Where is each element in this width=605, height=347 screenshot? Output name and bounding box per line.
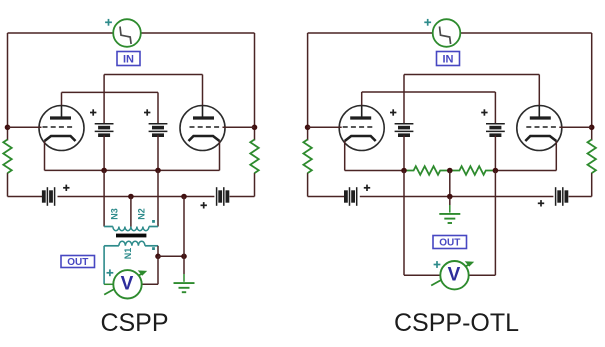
label OUT box (right) [433,236,467,249]
triode V1 [39,106,84,151]
wire cathode cross wire [45,169,220,171]
wire top rail left segment (right circuit) [308,32,433,34]
label CSPP [100,309,168,337]
wire B6 bottom lead [494,135,496,170]
node left-rail grid junction (right circuit) [305,125,311,131]
wire bottom rail [8,196,255,198]
node row right junction [493,168,499,174]
battery B5 [395,124,414,135]
voltage source VG1 plus [105,19,112,26]
battery B2 [149,124,168,135]
resistor R1 [3,140,11,174]
battery B6 plus [481,109,487,115]
svg-text:IN: IN [123,53,134,65]
voltage source VG1 [113,19,141,47]
transformer TR1 N1 phase dot [152,247,155,250]
label IN box (right) [437,52,460,66]
node center tap on rail [447,194,453,200]
label N3 [109,208,119,220]
battery B7 [346,187,357,206]
triode V2 [180,106,225,151]
node B1-cathode junction [101,168,107,174]
ground GND2 [439,214,460,223]
transformer TR1 N2 phase dot [152,220,155,223]
svg-text:OUT: OUT [67,257,88,268]
triode V4 [517,106,562,151]
resistor R2 [250,140,258,174]
label IN box (left) [117,52,140,66]
transformer TR1 primary windings N3 N2 [104,227,158,231]
wire B2 bottom lead [157,135,159,170]
wire top rail right segment [141,32,255,34]
label N1 [123,248,133,260]
voltmeter VM1 [104,270,147,298]
resistor R5 [404,166,450,175]
wire ground branch vertical [183,197,185,282]
battery B2 plus [144,109,150,115]
battery B8 plus [538,200,544,206]
label CSPP-OTL [394,309,519,337]
battery B3 [44,187,55,206]
svg-text:IN: IN [443,53,454,65]
wire V4 grid lead [559,126,591,128]
battery B4 [217,187,228,206]
voltmeter VM2 [431,261,474,289]
transformer TR1 secondary winding N1 [104,241,158,246]
wire transformer center lead [130,197,132,227]
wire center tap to rail [449,171,451,197]
wire left rail (right circuit) [307,33,309,197]
wire right rail (right circuit) [591,33,593,197]
wire left rail [7,33,9,197]
svg-text:V: V [121,274,134,295]
svg-text:CSPP: CSPP [100,309,168,337]
wire V3 grid lead [308,126,342,128]
wire center tap ground stub [449,197,451,213]
node B2-cathode junction [155,168,161,174]
battery B8 [556,187,567,206]
node ground wire junction [181,253,187,259]
wire N3 left lead [103,170,105,226]
svg-text:V: V [448,265,461,286]
wire junction to ground branch [158,255,184,257]
svg-text:N2: N2 [136,208,146,220]
triode V3 [339,106,384,151]
voltmeter VM1 plus [107,269,114,276]
battery B1 plus [90,109,96,115]
wire voltmeter left vertical [404,171,440,276]
battery B5 plus [390,109,396,115]
node N1-voltmeter junction [155,253,161,259]
wire right rail [254,33,256,197]
wire N2 right lead [157,170,159,226]
wire N1 left lead down [103,246,105,284]
battery B4 plus [201,202,207,208]
label OUT box (left) [61,256,95,269]
wire V2 cathode lead [219,141,221,170]
wire top rail left segment [8,32,114,34]
node row center junction [447,168,453,174]
svg-text:N1: N1 [123,248,133,260]
resistor R3 [303,140,311,174]
wire voltmeter left wire [104,283,113,285]
wire V2 plate to B1 top [104,75,202,124]
battery B7 plus [364,185,370,191]
wire V1 grid lead [8,126,42,128]
wire V1 plate to B2 top [62,92,159,123]
battery B6 [486,124,505,135]
wire V3 cathode lead [344,141,346,171]
transformer TR1 core [116,234,146,238]
resistor R4 [588,140,596,174]
wire B1 bottom lead [103,135,105,170]
wire V4 cathode lead [555,141,557,171]
svg-text:OUT: OUT [439,238,460,249]
wire B5 bottom lead [403,135,405,170]
voltage source VG2 plus [424,19,431,26]
node right-rail grid junction (right circuit) [589,125,595,131]
svg-text:N3: N3 [109,208,119,220]
voltage source VG2 [433,19,461,47]
node left-rail grid junction [5,125,11,131]
voltmeter VM2 plus [434,261,441,268]
wire V1 cathode lead [44,141,46,170]
ground GND1 [174,283,195,292]
wire V4 plate to B5 top [404,75,539,124]
node row left junction [401,168,407,174]
svg-text:CSPP-OTL: CSPP-OTL [394,309,519,337]
battery B1 [95,124,114,135]
battery B3 plus [63,185,69,191]
wire voltmeter right wire [142,256,158,284]
resistor R6 [450,166,496,175]
wire voltmeter right vertical [469,171,496,276]
node transformer center tap on rail [128,194,134,200]
node right-rail grid junction [252,125,258,131]
wire top rail right segment (right circuit) [460,32,591,34]
wire N1 right lead down [157,246,159,256]
wire V3 plate to B6 top [362,92,496,124]
label N2 [136,208,146,220]
node ground branch on rail [181,194,187,200]
wire cathode row right [495,170,556,172]
wire cathode row left [345,170,404,172]
wire bottom rail (right circuit) [308,196,592,198]
wire V2 grid lead [223,126,255,128]
